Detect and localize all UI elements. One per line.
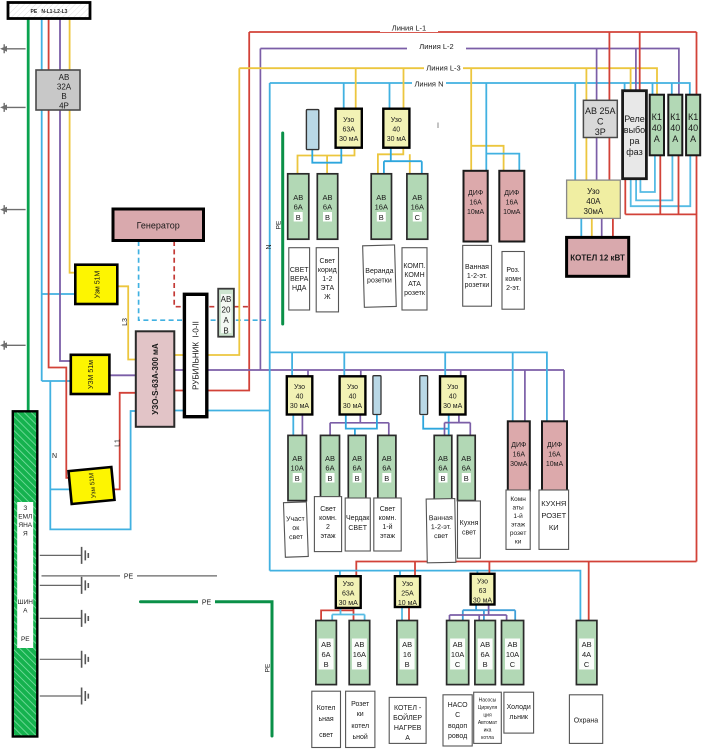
- wire L3 drop to dif row1: [471, 68, 503, 171]
- uzo40a boiler label: [584, 187, 604, 216]
- wire L2 purple from input box to UZM2: [60, 19, 71, 362]
- svg-text:Генератор: Генератор: [137, 221, 180, 231]
- svg-text:16А: 16А: [469, 200, 482, 207]
- label vannaya svet: [429, 515, 454, 540]
- breaker AB 16 B row3: [397, 621, 418, 685]
- svg-text:КОМН: КОМН: [404, 272, 424, 279]
- wire N drop to uzo63a group1: [343, 83, 345, 109]
- svg-text:РОЗЕТ: РОЗЕТ: [541, 511, 566, 520]
- breaker row1 no2 label: [322, 193, 332, 222]
- svg-text:16А: 16А: [375, 203, 388, 212]
- svg-text:10мА: 10мА: [467, 209, 485, 216]
- wire L1 drop to AB25A: [608, 32, 610, 100]
- wire N drop to uzo40a kotel: [574, 83, 576, 180]
- label kuhnya svet: [460, 520, 479, 537]
- svg-text:НДА: НДА: [292, 285, 307, 292]
- label box svet korid: [316, 248, 338, 312]
- label roz komn: [505, 267, 521, 292]
- label kholodilnik: [507, 704, 531, 721]
- wire PE gray line: [42, 575, 218, 577]
- svg-text:PE: PE: [265, 663, 272, 672]
- svg-text:Узо: Узо: [587, 187, 600, 196]
- svg-text:Линия L-2: Линия L-2: [419, 42, 453, 51]
- wire line L-3 top: [239, 68, 657, 95]
- wire AB25A to uzo40a three phases: [585, 138, 587, 181]
- switch RUBILNIK I-0-II: [184, 294, 206, 416]
- label box roz komn 2et: [502, 252, 524, 310]
- svg-text:Я: Я: [23, 531, 28, 538]
- wire L3 drop to uzo40 group1: [403, 68, 405, 109]
- svg-text:розетк: розетк: [404, 290, 426, 297]
- breaker AB 16A B row1: [371, 174, 391, 239]
- svg-text:КИ: КИ: [549, 523, 559, 532]
- wire fan below uzo3 group2 purple: [445, 415, 471, 436]
- svg-text:З: З: [23, 505, 27, 512]
- svg-text:1-й: 1-й: [513, 512, 523, 520]
- svg-text:В: В: [355, 474, 360, 483]
- UZM 51M no3 tilted: [69, 467, 115, 504]
- wire L1 red from switch up to line L-1: [174, 32, 249, 391]
- label box kotelnaya svet: [312, 691, 341, 747]
- svg-text:розетки: розетки: [465, 282, 490, 289]
- breaker AB 6A B no2 row3: [475, 621, 496, 685]
- wire generator L dashed: [174, 241, 249, 307]
- wire fan below uzo2 group2 cyan: [346, 415, 377, 436]
- svg-text:Узо: Узо: [402, 581, 413, 588]
- svg-text:30мА: 30мА: [510, 461, 528, 468]
- svg-text:аты: аты: [513, 505, 524, 512]
- wire L1 red from UZM3 up to UZO-S: [112, 393, 136, 490]
- breaker AB 6A B no3 row2: [378, 435, 396, 500]
- phase relay label: [624, 114, 645, 157]
- dif row1 no2 label: [503, 190, 521, 216]
- RCBO DIF 16A 30mA row2: [508, 421, 530, 490]
- svg-text:ра: ра: [629, 136, 639, 146]
- breaker row1 no3 label: [375, 193, 388, 222]
- svg-text:выбо: выбо: [624, 125, 645, 135]
- svg-text:30 мА: 30 мА: [343, 403, 363, 410]
- svg-text:СВЕТ: СВЕТ: [348, 525, 367, 532]
- label kotel boyler: [393, 705, 422, 742]
- svg-text:АВ: АВ: [376, 193, 386, 202]
- svg-text:котла: котла: [481, 735, 494, 741]
- earth bus bar ZEMLYANAYA SHINA PE: [13, 411, 38, 736]
- svg-text:Насосы: Насосы: [479, 698, 497, 704]
- svg-text:Ж: Ж: [324, 294, 331, 301]
- svg-text:Ванная: Ванная: [429, 515, 453, 522]
- wire relay output red to bus: [624, 179, 626, 215]
- earth electrode symbols: [82, 547, 89, 705]
- svg-text:N: N: [52, 453, 57, 460]
- UZM 51M no2: [71, 355, 110, 394]
- svg-text:30 мА: 30 мА: [290, 403, 310, 410]
- label box vannaya rozetki row1: [463, 245, 492, 306]
- svg-text:30 мА: 30 мА: [443, 403, 463, 410]
- svg-text:4Р: 4Р: [59, 102, 69, 111]
- svg-text:водоп: водоп: [448, 723, 467, 730]
- wire L2 purple riser to line L-2: [259, 49, 261, 371]
- breaker row2 labels: [291, 454, 304, 483]
- svg-text:НАГРЕВ: НАГРЕВ: [394, 725, 422, 732]
- svg-text:РУБИЛЬНИК I-0-II: РУБИЛЬНИК I-0-II: [192, 321, 201, 390]
- svg-text:Ванная: Ванная: [465, 264, 489, 271]
- svg-text:10А: 10А: [451, 650, 464, 659]
- wire L3 yellow from UZM1 to UZO-S: [117, 286, 136, 359]
- wire fan below uzo2 group2 purple: [330, 415, 389, 436]
- wire N link bar to uzo63a group1: [312, 148, 341, 163]
- wire K1 outputs red to bus: [660, 155, 678, 214]
- breaker row1 no4 label: [411, 193, 424, 222]
- svg-text:А: А: [690, 134, 696, 144]
- label box nasosy cirkulyaciya: [474, 692, 502, 743]
- breaker AB 6A B no2 row2: [348, 435, 366, 500]
- breaker AB25A label: [585, 106, 616, 137]
- wire fan below uzo63 row3 purple: [450, 605, 507, 621]
- svg-text:АВ: АВ: [507, 640, 517, 649]
- breaker AB 25A C 3P: [583, 100, 617, 137]
- svg-text:Комн: Комн: [510, 496, 526, 503]
- svg-text:6А: 6А: [323, 203, 332, 212]
- svg-text:К1: К1: [688, 112, 698, 122]
- RCBO DIF 16A 10mA no2 row1: [499, 171, 524, 242]
- svg-text:ки: ки: [357, 711, 364, 718]
- svg-text:А: А: [672, 134, 678, 144]
- svg-text:фаз: фаз: [626, 147, 642, 157]
- svg-text:В: В: [379, 213, 384, 222]
- svg-text:16А: 16А: [506, 200, 519, 207]
- svg-text:Узо: Узо: [343, 117, 354, 124]
- svg-text:ки: ки: [515, 539, 522, 546]
- svg-text:ьной: ьной: [353, 733, 368, 741]
- label box kuhnya rozetki: [539, 490, 569, 549]
- svg-text:АВ: АВ: [461, 454, 471, 463]
- svg-text:КОМП.: КОМП.: [403, 263, 425, 270]
- svg-text:АВ: АВ: [453, 640, 463, 649]
- svg-text:В: В: [325, 213, 330, 222]
- svg-text:этаж: этаж: [320, 533, 335, 540]
- svg-text:63А: 63А: [342, 127, 355, 134]
- label kuhnya rozetki: [541, 499, 566, 532]
- svg-text:С: С: [455, 660, 461, 669]
- breaker AB 6A B no4 row2: [434, 435, 452, 500]
- svg-text:АТА: АТА: [408, 281, 421, 288]
- svg-text:СВЕТ: СВЕТ: [290, 267, 309, 274]
- label svet komn 1: [379, 506, 397, 540]
- wire N stub into UZM3: [50, 488, 71, 490]
- label svet korid: [318, 258, 337, 301]
- svg-text:6А: 6А: [353, 464, 362, 473]
- label box svet veranda: [289, 248, 310, 310]
- label cherdak svet: [346, 515, 370, 532]
- wire N drop to uzo40 group1: [389, 83, 391, 109]
- svg-text:ция: ция: [483, 713, 492, 719]
- label vannaya rozetki row1: [465, 264, 490, 289]
- svg-text:В: В: [296, 213, 301, 222]
- N busbar blue group1: [306, 110, 318, 150]
- svg-text:30 мА: 30 мА: [473, 598, 493, 605]
- svg-text:Чердак: Чердак: [346, 515, 370, 522]
- wire N feeder bottom group: [270, 571, 581, 621]
- svg-text:А: А: [654, 134, 660, 144]
- svg-text:63: 63: [479, 588, 487, 595]
- svg-text:свет: свет: [462, 530, 477, 537]
- label box veranda rozetki: [363, 245, 397, 307]
- breaker AB 6A B no1 row3: [316, 621, 337, 685]
- label svet komn 2: [319, 506, 337, 540]
- svg-text:40: 40: [349, 394, 357, 401]
- svg-text:В: В: [405, 660, 410, 669]
- breaker row3 labels: [319, 639, 334, 670]
- svg-text:В: В: [483, 660, 488, 669]
- svg-text:УЗО-S-63А-300 мА: УЗО-S-63А-300 мА: [151, 343, 160, 415]
- small tick mark: [437, 123, 439, 129]
- svg-text:этаж: этаж: [511, 522, 526, 529]
- N busbar blue group2a: [373, 376, 381, 415]
- breaker AB 10A B row2: [288, 435, 306, 500]
- wire fan below uzo1 group2: [292, 415, 294, 436]
- wire red drop to okhrana: [588, 562, 590, 621]
- svg-text:ДИФ: ДИФ: [547, 442, 562, 449]
- label box cherdak svet: [345, 498, 370, 551]
- label svet veranda: [290, 267, 309, 292]
- svg-text:ЕМЛ: ЕМЛ: [18, 514, 32, 521]
- svg-text:1-й: 1-й: [382, 523, 392, 531]
- svg-text:розетки: розетки: [367, 278, 392, 285]
- svg-text:ВЕРА: ВЕРА: [290, 276, 309, 283]
- svg-text:Веранда: Веранда: [365, 268, 393, 275]
- label box kotel boyler: [389, 697, 426, 743]
- RCD uzo 63 30mA row3: [471, 574, 495, 605]
- label box uchastok svet: [283, 502, 308, 557]
- boiler KOTEL 12kVT: [567, 237, 629, 276]
- wire line L-1 top: [249, 31, 696, 33]
- svg-text:Узо: Узо: [477, 579, 488, 586]
- svg-text:N: N: [266, 244, 273, 249]
- svg-text:котел: котел: [351, 723, 369, 730]
- label box okhrana: [569, 695, 602, 744]
- svg-text:комн.: комн.: [379, 515, 397, 522]
- wire N cyan from input box down left column: [41, 19, 43, 382]
- svg-text:2: 2: [326, 524, 330, 531]
- svg-text:PE: PE: [202, 600, 212, 607]
- wire L3 fan below uzo40 group1: [378, 148, 410, 174]
- RCD uzo 63A 30mA row3: [336, 576, 361, 608]
- svg-text:В: В: [464, 474, 469, 483]
- svg-text:L1: L1: [115, 439, 122, 447]
- svg-text:40: 40: [688, 123, 698, 133]
- svg-text:16А: 16А: [411, 203, 424, 212]
- wire red drops to uzo row3: [415, 562, 489, 577]
- wire line L-1 right drop: [696, 32, 698, 562]
- input terminal PE N-L1-L2-L3: [8, 3, 90, 19]
- wire fan below uzo63a row3 red: [321, 608, 353, 621]
- svg-text:30 мА: 30 мА: [339, 600, 359, 607]
- svg-text:30 мА: 30 мА: [339, 136, 359, 143]
- svg-text:6А: 6А: [294, 203, 303, 212]
- wire L3 drop to AB25A: [585, 68, 587, 100]
- wire PE green bottom group: [141, 602, 273, 736]
- svg-text:ДИФ: ДИФ: [511, 442, 526, 449]
- svg-text:АВ: АВ: [321, 640, 331, 649]
- svg-text:1-2: 1-2: [322, 276, 332, 283]
- label box svet komn 1 etazh: [374, 498, 401, 551]
- svg-text:А: А: [405, 735, 410, 742]
- breaker AB 6A B no1 row1: [288, 174, 309, 239]
- svg-text:розет: розет: [510, 530, 526, 537]
- node PE label gray line: [120, 571, 137, 580]
- uzo40 group1 label: [387, 117, 407, 143]
- generator: [113, 209, 204, 241]
- wire N drop to phase relay: [624, 83, 626, 91]
- svg-text:30мА: 30мА: [584, 207, 604, 216]
- label komnaty rozetki: [510, 496, 526, 546]
- label rozetki kotelnoy: [351, 701, 370, 741]
- svg-text:PE: PE: [124, 574, 134, 581]
- svg-text:16А: 16А: [353, 650, 366, 659]
- uzo63a group1 label: [339, 117, 359, 143]
- svg-text:комн.: комн.: [319, 515, 337, 522]
- svg-text:Свет: Свет: [320, 258, 336, 265]
- svg-text:Узо: Узо: [391, 117, 402, 124]
- earth bus text: [18, 505, 34, 643]
- svg-text:10А: 10А: [291, 464, 304, 473]
- wire red bus to boiler group: [625, 213, 696, 215]
- contactor K1 labels: [652, 112, 662, 144]
- svg-text:В: В: [440, 474, 445, 483]
- breaker AB20 label: [221, 294, 232, 336]
- svg-text:АВ: АВ: [480, 640, 490, 649]
- RCD uzo 40 30mA no3 group2: [440, 376, 466, 414]
- svg-text:32А: 32А: [57, 83, 72, 92]
- svg-text:свет: свет: [319, 732, 334, 739]
- svg-text:Узо: Узо: [347, 384, 358, 391]
- label box rozetki kotelnoy: [346, 691, 375, 747]
- svg-text:Автомат: Автомат: [478, 720, 498, 726]
- svg-text:льник: льник: [509, 714, 529, 721]
- wire fan below uzo3 group2 cyan: [423, 415, 449, 436]
- breaker AB 10A C no1 row3: [447, 621, 469, 685]
- svg-text:С: С: [510, 660, 516, 669]
- wire N branch second group: [270, 352, 547, 421]
- svg-text:УЗМ 51м: УЗМ 51м: [88, 360, 95, 389]
- svg-text:6А: 6А: [325, 464, 334, 473]
- svg-text:6А: 6А: [382, 464, 391, 473]
- label nasosy cirkulyaciya: [478, 698, 498, 742]
- svg-text:Линия L-1: Линия L-1: [392, 24, 426, 33]
- label box vannaya svet: [426, 499, 456, 563]
- wire L2 purple from UZM2 to UZO-S: [109, 374, 135, 376]
- phase selection relay: [623, 91, 647, 179]
- label box komp komnata: [402, 248, 427, 310]
- svg-text:Розет: Розет: [351, 701, 370, 708]
- svg-text:Узо: Узо: [294, 384, 305, 391]
- breaker row1 no1 label: [293, 193, 303, 222]
- line L-2 label: [407, 41, 466, 51]
- wire N riser: [269, 83, 271, 571]
- wire PE green from input box to earth bus: [27, 19, 30, 412]
- wire L3 drop to phase relay: [630, 68, 632, 91]
- svg-text:В: В: [223, 327, 228, 336]
- svg-text:10мА: 10мА: [546, 461, 564, 468]
- wire relay coil loops cyan to K1 bottoms: [640, 155, 655, 192]
- N busbar blue group2b: [420, 376, 428, 415]
- svg-text:Холоди: Холоди: [507, 704, 531, 711]
- svg-text:АВ 25А: АВ 25А: [585, 106, 616, 116]
- svg-text:АВ: АВ: [221, 295, 232, 304]
- svg-text:АВ: АВ: [59, 73, 70, 82]
- label veranda rozetki: [365, 268, 393, 285]
- breaker AB 4A C okhrana: [576, 621, 597, 685]
- svg-text:АВ: АВ: [292, 454, 302, 463]
- label box svet komn 2 etazh: [314, 497, 341, 552]
- wire PE green riser first group: [281, 133, 284, 324]
- svg-text:1-2-эт.: 1-2-эт.: [467, 273, 487, 280]
- svg-text:2-эт.: 2-эт.: [506, 285, 520, 292]
- svg-text:L3: L3: [122, 318, 129, 326]
- wire L2 drop to phase relay: [635, 49, 637, 91]
- svg-text:40: 40: [652, 123, 662, 133]
- svg-text:КОТЕЛ -: КОТЕЛ -: [394, 705, 422, 712]
- RCBO DIF 16A 10mA row2: [542, 421, 567, 490]
- svg-text:40: 40: [670, 123, 680, 133]
- svg-text:ДИФ: ДИФ: [504, 190, 519, 197]
- contactor K1 40A no1: [650, 95, 664, 156]
- wire line L-2 top: [260, 49, 679, 95]
- svg-text:ок: ок: [292, 525, 300, 532]
- RCD uzo 25A 10mA row3: [395, 576, 420, 607]
- svg-text:30 мА: 30 мА: [387, 136, 407, 143]
- svg-text:Охрана: Охрана: [574, 718, 599, 725]
- svg-text:КОТЕЛ 12 кВТ: КОТЕЛ 12 кВТ: [570, 254, 625, 263]
- dif row2 labels: [510, 442, 528, 468]
- svg-text:10 мА: 10 мА: [398, 600, 418, 607]
- svg-text:АВ: АВ: [382, 454, 392, 463]
- uzo row3 labels: [339, 581, 359, 607]
- svg-text:PE N-L1-L2-L3: PE N-L1-L2-L3: [31, 9, 68, 15]
- svg-text:ШИН: ШИН: [18, 599, 34, 606]
- label box kholodilnik: [504, 692, 534, 733]
- svg-text:В: В: [327, 474, 332, 483]
- svg-text:3Р: 3Р: [595, 127, 606, 137]
- svg-text:С: С: [597, 117, 604, 127]
- svg-text:Реле: Реле: [624, 114, 645, 124]
- svg-text:16А: 16А: [513, 452, 526, 459]
- line L-1 label: [380, 23, 438, 33]
- svg-text:К1: К1: [670, 112, 680, 122]
- wire N lower vertical to UZM3 and loop to UZO-S: [50, 381, 136, 529]
- label box kuhnya svet: [458, 501, 481, 558]
- breaker AB 6A B no2 row1: [317, 174, 337, 239]
- wire N branch to UZM1: [42, 293, 76, 295]
- label nasos vodoprovod: [448, 702, 468, 740]
- svg-text:Свет: Свет: [320, 506, 336, 513]
- breaker AB 6A B no5 row2: [458, 435, 476, 500]
- RCD uzo 40 30mA no2 group2: [340, 376, 366, 414]
- svg-text:свет: свет: [289, 534, 304, 542]
- svg-text:25А: 25А: [401, 591, 414, 598]
- label uchastok svet: [286, 516, 306, 542]
- wire L2 purple from UZO-S across to second group: [174, 369, 564, 371]
- svg-text:В: В: [324, 660, 329, 669]
- wire uzo40a to kotel four conductors: [580, 218, 582, 237]
- svg-text:6А: 6А: [462, 464, 471, 473]
- svg-text:В: В: [384, 474, 389, 483]
- svg-text:НАСО: НАСО: [448, 702, 468, 709]
- svg-text:В: В: [357, 660, 362, 669]
- uzo group2 labels: [290, 384, 310, 410]
- svg-text:PE: PE: [276, 220, 283, 229]
- label box komnaty rozetki: [506, 490, 530, 549]
